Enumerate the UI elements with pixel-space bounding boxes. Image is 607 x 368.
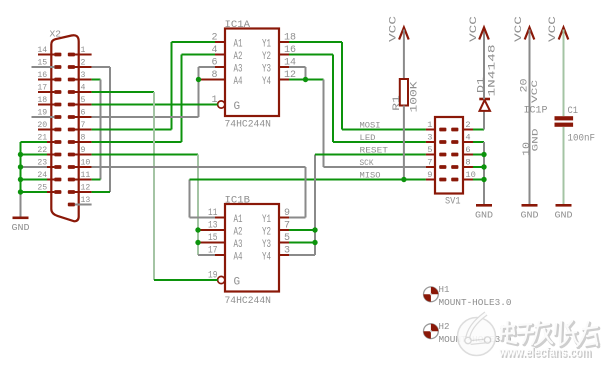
svg-text:4: 4	[465, 133, 470, 143]
ground symbol below IC1P	[522, 204, 538, 207]
X2 pad pin 11	[68, 178, 75, 182]
SV1 pin 4 stub	[463, 141, 473, 143]
svg-text:9: 9	[81, 146, 86, 155]
junction IC1B.13	[195, 227, 200, 232]
X2 pad pin 21	[54, 140, 61, 144]
svg-text:1: 1	[81, 46, 86, 55]
SV1 pad pin 6	[451, 153, 458, 157]
X2 pad pin 22	[54, 153, 61, 157]
wire X2.8 to IC1A.4	[92, 141, 182, 143]
svg-text:Y3: Y3	[262, 239, 271, 251]
IC1A pin 4 stub	[215, 54, 225, 56]
X2 pad pin 9	[68, 153, 75, 157]
svg-text:4: 4	[81, 84, 86, 93]
watermark chinese text	[501, 321, 598, 347]
wire IC1A.18 MOSI to SV1.1	[289, 41, 342, 43]
svg-text:GND: GND	[521, 210, 539, 221]
supply VCC above C1	[559, 28, 569, 40]
ground symbol left	[13, 217, 29, 220]
svg-text:2: 2	[81, 59, 86, 68]
X2 pad pin 18	[54, 103, 61, 107]
svg-text:VCC: VCC	[514, 16, 525, 42]
svg-text:7: 7	[81, 121, 86, 130]
svg-text:100K: 100K	[410, 82, 421, 113]
X2 pad pin 20	[54, 128, 61, 132]
IC1A pin 2 stub	[215, 41, 225, 43]
X2 pin 19 stub	[32, 116, 55, 118]
IC1B pin 3 stub	[279, 254, 289, 256]
svg-text:D1: D1	[476, 77, 487, 93]
svg-text:VCC: VCC	[531, 80, 540, 103]
wire X2.9 to IC1B.13 15 17	[92, 154, 198, 156]
IC1A G pin 1 stub and bubble	[215, 104, 218, 106]
svg-text:H1: H1	[439, 284, 450, 295]
SV1 pin 5 stub	[426, 154, 435, 156]
X2 pin 22 stub	[41, 154, 55, 156]
IC1A pin 16 stub	[279, 54, 289, 56]
svg-text:A3: A3	[234, 64, 243, 76]
svg-text:www.elecfans.com: www.elecfans.com	[498, 345, 591, 360]
IC1A pin 14 stub	[279, 66, 289, 68]
X2 pad pin 7	[68, 128, 75, 132]
X2 pin 1 stub	[75, 54, 92, 56]
X2 pin 11 stub	[75, 179, 92, 181]
wire X2.25 to GND bus	[21, 191, 48, 193]
svg-text:Y4: Y4	[262, 76, 271, 88]
wire C1 to GND	[563, 127, 565, 204]
junction on GND bus row 25	[18, 189, 23, 194]
IC1B pin 5 stub	[279, 242, 289, 244]
X2 pin 12 stub	[75, 191, 92, 193]
junction IC1A.8	[196, 77, 201, 82]
IC1B pin 7 stub	[279, 229, 289, 231]
svg-text:Y1: Y1	[262, 214, 271, 226]
svg-text:A1: A1	[234, 39, 243, 51]
svg-text:VCC: VCC	[389, 16, 400, 42]
mount hole H2 symbol	[424, 324, 439, 339]
wire X2.22 to GND bus	[21, 154, 48, 156]
svg-text:A4: A4	[234, 252, 243, 264]
svg-text:16: 16	[37, 71, 47, 80]
junction SV1.6	[481, 152, 486, 157]
X2 pad pin 3	[68, 78, 75, 82]
svg-text:Y4: Y4	[262, 252, 271, 264]
X2 pin 24 stub	[41, 179, 55, 181]
X2 pad pin 23	[54, 165, 61, 169]
wire IC1B outputs RESET to SV1.5	[289, 229, 315, 231]
svg-text:MOSI: MOSI	[360, 120, 381, 130]
wire SV1.2 to diode D1	[473, 129, 484, 131]
junction IC1B.7	[312, 227, 317, 232]
svg-text:A4: A4	[234, 76, 243, 88]
svg-text:Y2: Y2	[262, 227, 271, 239]
X2 pin 16 stub	[38, 79, 54, 81]
X2 pin 7 stub	[75, 129, 92, 131]
junction SV1.10	[481, 177, 486, 182]
X2 pad pin 5	[68, 103, 75, 107]
svg-text:GND: GND	[532, 128, 541, 151]
watermark logo	[458, 314, 496, 356]
X2 pin 9 stub	[75, 154, 92, 156]
svg-text:5: 5	[427, 145, 432, 155]
wire X2.3 to X2.11	[92, 79, 101, 81]
X2 pad pin 13	[68, 203, 75, 207]
X2 pin 4 stub	[75, 91, 92, 93]
SV1 pad pin 7	[439, 165, 446, 169]
svg-text:74HC244N: 74HC244N	[225, 120, 272, 131]
wire X2.4 to IC1B.G	[92, 91, 154, 93]
svg-text:13: 13	[81, 196, 91, 205]
svg-text:10: 10	[81, 159, 91, 168]
X2 pad pin 25	[54, 190, 61, 194]
X2 pad pin 6	[68, 115, 75, 119]
X2 pin 2 stub	[75, 66, 92, 68]
wire IC1A.16 LED to SV1.3	[289, 54, 333, 56]
IC1B pin 17 stub	[215, 254, 225, 256]
junction on GND bus row 22	[18, 152, 23, 157]
svg-text:Y2: Y2	[262, 51, 271, 63]
wire X2.10 to IC1B.9	[92, 166, 306, 168]
svg-text:12: 12	[81, 184, 91, 193]
resistor R1 body	[400, 79, 408, 106]
svg-text:GND: GND	[12, 222, 30, 233]
SV1 pad pin 10	[451, 178, 458, 182]
supply VCC above R1	[399, 28, 409, 40]
svg-text:8: 8	[81, 134, 86, 143]
X2 pin 6 stub	[75, 116, 92, 118]
supply VCC above D1	[479, 28, 489, 40]
ground symbol below C1	[556, 204, 572, 207]
svg-text:20: 20	[37, 121, 47, 130]
svg-text:3: 3	[427, 133, 432, 143]
svg-text:VCC: VCC	[548, 16, 559, 42]
junction IC1B.5	[312, 240, 317, 245]
svg-text:17: 17	[37, 84, 47, 93]
svg-text:Y3: Y3	[262, 64, 271, 76]
X2 pad pin 14	[54, 53, 61, 57]
svg-text:3: 3	[81, 71, 86, 80]
wire VCC to C1	[563, 30, 565, 117]
IC1A pin 6 stub	[215, 66, 225, 68]
X2 pin 14 stub	[38, 54, 54, 56]
wire X2.2 to X2.12	[92, 66, 110, 68]
svg-text:G: G	[234, 101, 241, 113]
svg-text:IC1P: IC1P	[524, 106, 548, 117]
SV1 pin 7 stub	[426, 166, 435, 168]
SV1 pad pin 3	[439, 140, 446, 144]
X2 pin 21 stub	[41, 141, 55, 143]
X2 pin 25 stub	[41, 191, 55, 193]
svg-text:GND: GND	[475, 210, 493, 221]
svg-text:1: 1	[427, 120, 432, 130]
X2 pin 23 stub	[41, 166, 55, 168]
X2 pad pin 8	[68, 140, 75, 144]
ground symbol below SV1	[476, 204, 492, 207]
SV1 pad pin 4	[451, 140, 458, 144]
X2 pad pin 19	[54, 115, 61, 119]
svg-text:2: 2	[465, 120, 470, 130]
svg-text:R1: R1	[392, 95, 403, 111]
X2 pin 18 stub	[38, 104, 54, 106]
svg-text:74HC244N: 74HC244N	[225, 296, 272, 307]
svg-text:A1: A1	[234, 214, 243, 226]
svg-text:C1: C1	[568, 106, 579, 117]
X2 pad pin 16	[54, 78, 61, 82]
SV1 pin 6 stub	[463, 154, 473, 156]
svg-text:VCC: VCC	[469, 16, 480, 42]
X2 pin 5 stub	[75, 104, 92, 106]
X2 pad pin 1	[68, 53, 75, 57]
svg-text:GND: GND	[555, 210, 573, 221]
svg-text:5: 5	[81, 96, 86, 105]
SV1 pin 3 stub	[426, 141, 435, 143]
svg-text:14: 14	[37, 46, 47, 55]
X2 pad pin 4	[68, 90, 75, 94]
header SV1 box	[435, 117, 463, 194]
junction SV1.8	[481, 164, 486, 169]
svg-text:G: G	[234, 277, 241, 289]
wire IC1A.14 and IC1A.12 SCK to SV1.7	[289, 66, 306, 68]
svg-text:19: 19	[37, 109, 47, 118]
buffer IC1A box	[225, 29, 279, 117]
IC1A pin 12 stub	[279, 79, 289, 81]
X2 pin 17 stub	[38, 91, 54, 93]
IC1B pin 11 stub	[215, 217, 225, 219]
wire SV1 ground rail	[473, 141, 484, 143]
wire X2.7 to IC1A.2	[92, 129, 172, 131]
wire X2.5 to IC1A.G	[92, 104, 218, 106]
SV1 pad pin 1	[439, 128, 446, 132]
svg-text:6: 6	[465, 145, 470, 155]
wire R1 to MISO net	[403, 106, 405, 180]
wire X2.6 to IC1A.6 and IC1A.8	[92, 116, 199, 118]
diode D1 1N4148	[479, 98, 490, 101]
IC1B pin 13 stub	[215, 229, 225, 231]
X2 pad pin 24	[54, 178, 61, 182]
svg-text:11: 11	[81, 171, 91, 180]
SV1 pad pin 8	[451, 165, 458, 169]
SV1 pad pin 2	[451, 128, 458, 132]
svg-text:7: 7	[427, 158, 432, 168]
svg-text:A2: A2	[234, 227, 243, 239]
X2 pad pin 17	[54, 90, 61, 94]
wire X2.23 to GND bus	[21, 166, 48, 168]
svg-text:1N4148: 1N4148	[488, 45, 499, 97]
wire X2.24 to GND bus	[21, 179, 48, 181]
svg-text:A3: A3	[234, 239, 243, 251]
junction R1 MISO	[401, 177, 406, 182]
X2 pin 13 stub	[75, 204, 92, 206]
svg-text:SV1: SV1	[445, 197, 461, 208]
X2 pin 8 stub	[75, 141, 92, 143]
svg-text:A2: A2	[234, 51, 243, 63]
SV1 pin 1 stub	[426, 129, 435, 131]
GND bus vertical	[20, 142, 22, 192]
svg-text:8: 8	[465, 158, 470, 168]
svg-text:6: 6	[81, 109, 86, 118]
X2 pin 15 stub	[32, 66, 55, 68]
IC1A pin 18 stub	[279, 41, 289, 43]
mount hole H1 symbol	[424, 287, 439, 302]
svg-text:MISO: MISO	[360, 170, 381, 180]
X2 pin 20 stub	[38, 129, 54, 131]
wire MISO net to IC1B.11	[189, 180, 191, 218]
IC1B pin 9 stub	[279, 217, 289, 219]
svg-text:SCK: SCK	[360, 158, 375, 168]
X2 pad pin 2	[68, 65, 75, 69]
svg-text:15: 15	[37, 59, 47, 68]
svg-text:LED: LED	[360, 133, 376, 143]
wire VCC to R1	[403, 30, 405, 80]
SV1 pin 10 stub	[463, 179, 473, 181]
svg-text:IC1B: IC1B	[225, 196, 251, 207]
junction on GND bus row 24	[18, 177, 23, 182]
junction on GND bus row 23	[18, 164, 23, 169]
X2 pad pin 12	[68, 190, 75, 194]
buffer IC1B box	[225, 204, 279, 292]
junction IC1A.12	[303, 77, 308, 82]
svg-text:MOUNT-HOLE3.0: MOUNT-HOLE3.0	[439, 297, 512, 308]
svg-text:9: 9	[427, 170, 432, 180]
svg-text:IC1A: IC1A	[225, 20, 251, 31]
SV1 pad pin 9	[439, 178, 446, 182]
svg-text:RESET: RESET	[360, 145, 389, 155]
IC1P power pin line	[529, 30, 531, 205]
IC1B G pin 19 stub and bubble	[215, 279, 218, 281]
svg-text:X2: X2	[50, 29, 62, 40]
svg-text:18: 18	[37, 96, 47, 105]
SV1 pin 8 stub	[463, 166, 473, 168]
SV1 pin 9 stub	[426, 179, 435, 181]
wire D1 to VCC	[483, 30, 485, 100]
IC1B pin 15 stub	[215, 242, 225, 244]
IC1A pin 8 stub	[215, 79, 225, 81]
junction IC1B.15	[195, 240, 200, 245]
capacitor C1 plates	[555, 116, 574, 120]
wire X2.21 to GND bus	[21, 141, 48, 143]
X2 pad pin 15	[54, 65, 61, 69]
supply VCC above IC1P	[525, 28, 535, 40]
SV1 pin 2 stub	[463, 129, 473, 131]
X2 pin 10 stub	[75, 166, 92, 168]
svg-text:20: 20	[519, 79, 530, 93]
connector X2 body	[51, 35, 78, 221]
svg-text:H2: H2	[439, 321, 450, 332]
svg-text:100nF: 100nF	[568, 134, 596, 145]
X2 pad pin 10	[68, 165, 75, 169]
SV1 pad pin 5	[439, 153, 446, 157]
X2 pin 3 stub	[75, 79, 92, 81]
svg-text:Y1: Y1	[262, 39, 271, 51]
